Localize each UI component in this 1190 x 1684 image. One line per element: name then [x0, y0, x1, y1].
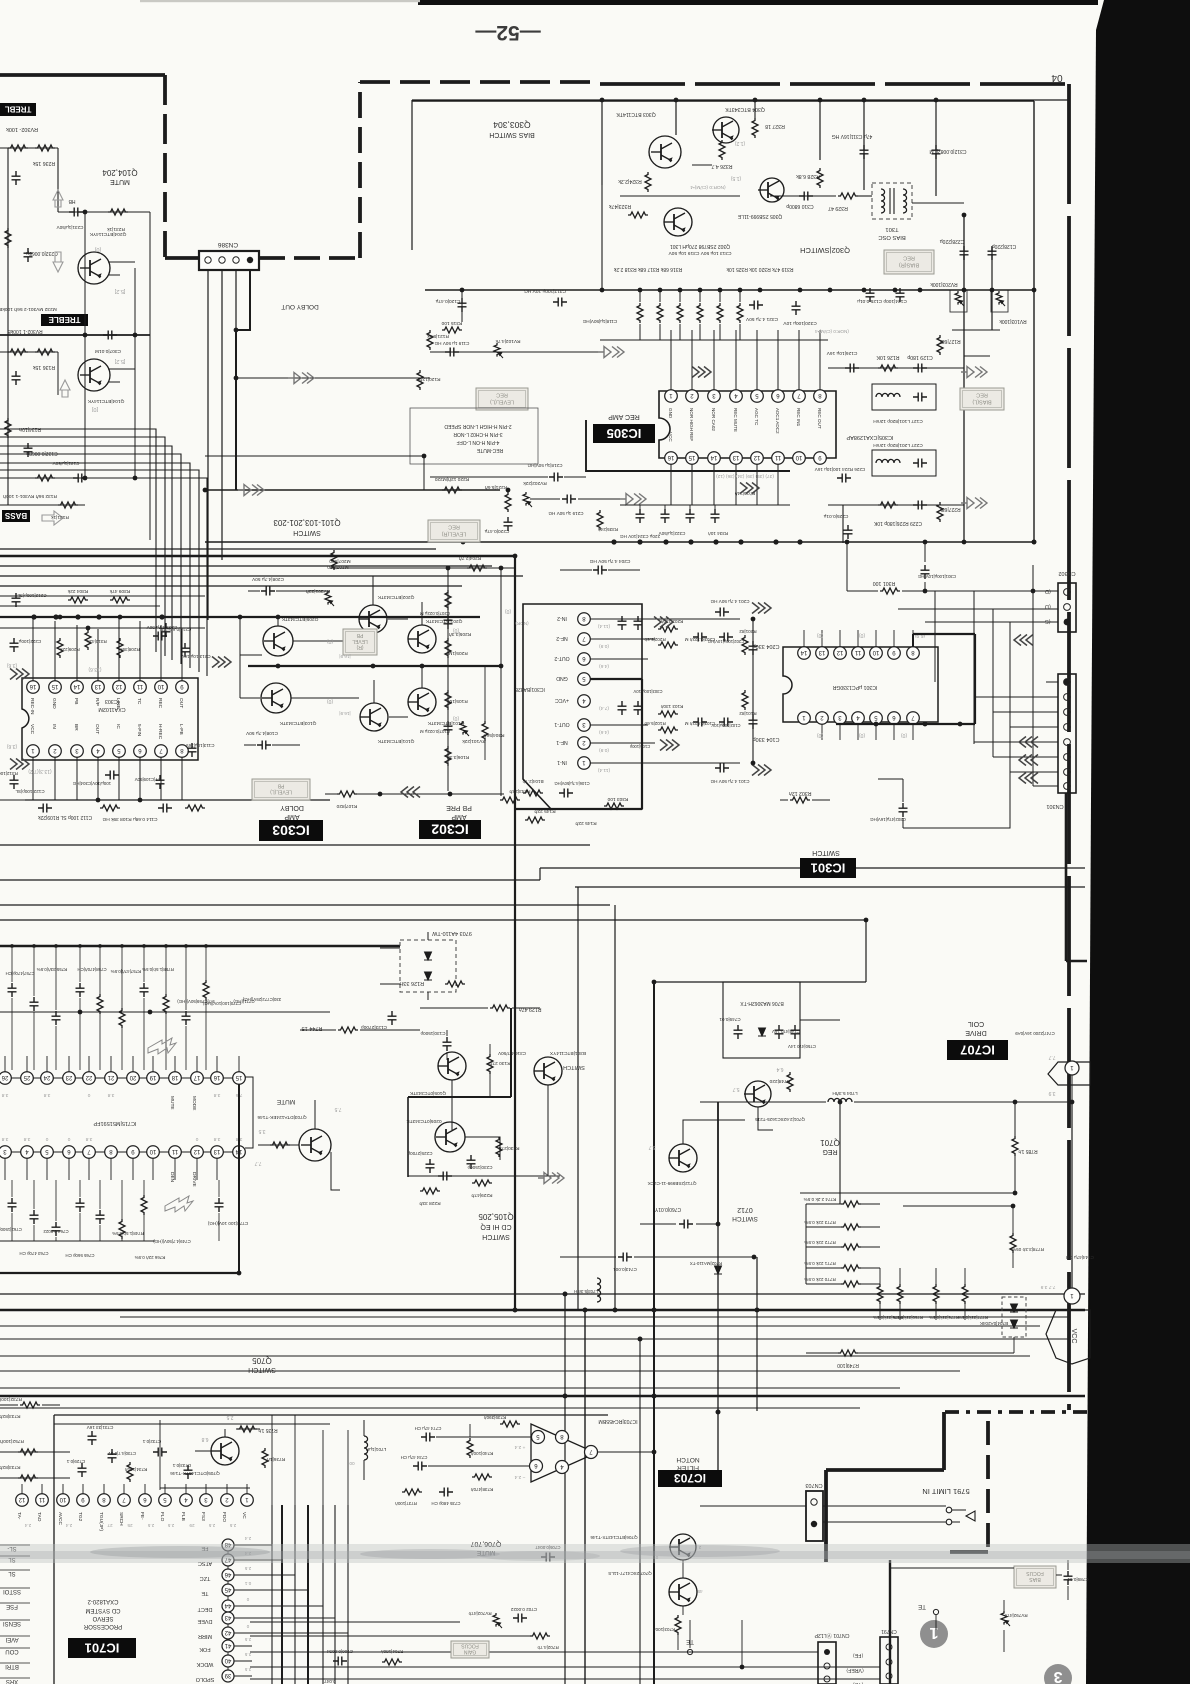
wire horizontal bus y880 — [0, 879, 540, 881]
wire ic302 r h1 — [590, 618, 740, 620]
svg-text:Q202|BTC343TK: Q202|BTC343TK — [377, 594, 415, 600]
svg-text:2.5: 2.5 — [229, 1523, 236, 1528]
wire ic302 r h5 — [590, 742, 655, 744]
svg-text:R134|10ℎ: R134|10ℎ — [19, 426, 41, 432]
wire IC715 row2 stub x153 — [152, 1158, 154, 1180]
IC IC305 outline — [659, 391, 836, 458]
svg-text:CN703: CN703 — [805, 1482, 822, 1488]
svg-text:FS3: FS3 — [200, 1512, 206, 1521]
wire left stub — [0, 799, 25, 801]
loop L201 C227 box — [872, 450, 936, 476]
resistor RV302a — [8, 145, 28, 151]
svg-text:C222|100µ: C222|100µ — [18, 639, 41, 644]
svg-text:C101 4.7µ 50V HG: C101 4.7µ 50V HG — [710, 779, 749, 784]
scan smear band artifact — [0, 1544, 1190, 1563]
svg-text:(37) (35) (39) (34) (36): (37) (35) (39) (34) (36) (12) — [716, 473, 774, 479]
node bus290 x895 — [893, 288, 898, 293]
svg-text:R126 10K: R126 10K — [876, 354, 900, 360]
svg-text:REC: REC — [448, 524, 460, 530]
svg-text:DOLBY OUT: DOLBY OUT — [281, 303, 318, 310]
IC703 pin 7 — [585, 1446, 598, 1459]
wire q706 q707 — [682, 1560, 684, 1578]
svg-text:R323|47k: R323|47k — [609, 203, 632, 209]
svg-text:Q105,205: Q105,205 — [478, 1212, 514, 1221]
node x866 y920 — [864, 918, 869, 923]
potentiometer RV202 — [523, 492, 532, 507]
svg-text:MIRR: MIRR — [198, 1633, 212, 1639]
capacitor C311 — [860, 145, 869, 159]
capacitor C120 — [458, 298, 467, 312]
wire IC303 bottom pin7 stub — [160, 757, 162, 800]
svg-text:Q303,304: Q303,304 — [493, 120, 531, 130]
svg-text:C789|0.01: C789|0.01 — [1067, 1577, 1089, 1582]
IC305 pin 1 — [665, 390, 678, 403]
IC701 pin 8 — [98, 1494, 111, 1507]
connector CN386 — [199, 251, 259, 270]
svg-text:(1.5): (1.5) — [731, 175, 742, 181]
wire mesh h727 — [1010, 726, 1058, 728]
resistor R776 — [933, 1284, 939, 1304]
svg-text:DEN: DEN — [169, 1172, 175, 1183]
svg-text:R103 130ℎ: R103 130ℎ — [660, 704, 683, 709]
IC701 pin 1 — [241, 1494, 254, 1507]
node bus290 x640 — [638, 288, 643, 293]
IC715 pin 14 — [233, 1146, 246, 1159]
IC303 pin 15 — [49, 681, 62, 694]
svg-text:39: 39 — [224, 1672, 231, 1678]
wire cn703 h — [700, 1506, 946, 1522]
svg-text:C744|47µ CH: C744|47µ CH — [1066, 1255, 1094, 1260]
svg-text:100µ/10V|C304|HG: 100µ/10V|C304|HG — [72, 781, 111, 786]
IC305 pin 5 — [751, 390, 764, 403]
wire pb h576 — [330, 575, 440, 577]
wire IC715 row2 stub x175 — [174, 1158, 176, 1180]
svg-text:IN-1: IN-1 — [557, 759, 567, 765]
connector VCC hex bottom — [1046, 1310, 1090, 1364]
svg-text:R131|1k: R131|1k — [51, 514, 69, 520]
svg-text:REC MUTE: REC MUTE — [733, 408, 738, 432]
svg-text:0: 0 — [246, 1597, 249, 1602]
wire IC701 pin stub x227 — [226, 1484, 228, 1494]
node bus290 x864 — [862, 288, 867, 293]
wire IC701 pin stub x165 — [164, 1484, 166, 1494]
capacitor C733 — [184, 1465, 193, 1479]
wire c301 v — [924, 542, 926, 591]
svg-text:Q701: Q701 — [820, 1138, 840, 1147]
capacitor C128 — [988, 246, 997, 260]
wire ladder stub 1 — [806, 1226, 880, 1228]
svg-text:04: 04 — [1051, 72, 1063, 83]
resistor R739 — [500, 1421, 520, 1427]
svg-text:21: 21 — [107, 1074, 114, 1080]
wire staircase 6 — [0, 470, 199, 672]
wire tape left col — [7, 148, 9, 505]
svg-text:(4.6): (4.6) — [599, 663, 609, 669]
svg-text:C213|10µ|16V: C213|10µ|16V — [180, 654, 210, 659]
svg-text:R304 22k: R304 22k — [67, 588, 88, 594]
svg-text:⟨D: ⟨D — [1045, 588, 1051, 595]
wire IC701 col link y1560 — [234, 1559, 282, 1561]
svg-text:BR: BR — [73, 724, 79, 731]
svg-text:LEVEL(R): LEVEL(R) — [441, 530, 466, 536]
arrow cluster cn301 c — [1019, 773, 1038, 784]
svg-text:LEVEL(L): LEVEL(L) — [270, 789, 292, 795]
wire left edge stub BTRI — [0, 1662, 30, 1664]
svg-text:(3.6): (3.6) — [7, 743, 18, 749]
wire IC301 pin stub up x822 — [821, 630, 823, 647]
wire IC303 top pin11 stub — [139, 621, 141, 681]
svg-text:⟨FE⟩: ⟨FE⟩ — [853, 1652, 864, 1658]
wire ladder stub 0 — [806, 1203, 880, 1205]
svg-text:R301 100: R301 100 — [873, 580, 896, 586]
wire staircase 4 — [0, 454, 181, 664]
wire rec row1 — [828, 367, 964, 369]
node x936 y100 — [934, 98, 939, 103]
wire IC305 pin16 stub down — [670, 464, 672, 505]
transistor Q202 — [408, 625, 436, 653]
svg-text:7.7 3.9: 7.7 3.9 — [1040, 1284, 1055, 1290]
svg-text:FOK: FOK — [199, 1646, 211, 1652]
wire horizontal bus y946 heavy — [0, 945, 400, 947]
wire abv715 x144 — [143, 948, 145, 1070]
svg-text:TREBLE: TREBLE — [48, 315, 81, 324]
svg-text:12: 12 — [836, 649, 843, 655]
IC715 pin 26 — [0, 1072, 11, 1085]
wire ic302 r h3 — [590, 658, 648, 660]
svg-text:R310|43k: R310|43k — [87, 639, 107, 644]
resistor R106 — [445, 746, 451, 766]
wire IC701 col stub 42 — [234, 1632, 252, 1634]
svg-text:Q303 BTC114TK: Q303 BTC114TK — [616, 111, 656, 117]
svg-text:R773 22k 0.5%: R773 22k 0.5% — [804, 1220, 835, 1225]
svg-text:14: 14 — [710, 454, 717, 460]
svg-text:R748|1.5ℎ|0.5%: R748|1.5ℎ|0.5% — [112, 1231, 144, 1236]
svg-text:SSTOI: SSTOI — [3, 1588, 21, 1594]
wire botleft h1 — [0, 1451, 70, 1453]
IC701 pin 43 DVEE — [222, 1612, 234, 1624]
svg-text:(0): (0) — [453, 627, 459, 633]
node pb y568 b — [499, 566, 504, 571]
arrow chevron pin9 — [740, 483, 759, 494]
IC301 pin 1 — [798, 712, 811, 725]
wire r785 v — [1014, 1102, 1016, 1193]
svg-text:C321 4.7µ 50V: C321 4.7µ 50V — [745, 316, 778, 322]
wire IC303 top pin9 stub — [181, 629, 183, 681]
svg-text:C307|0.01M: C307|0.01M — [95, 348, 121, 354]
wire CN301 bottom corner — [1066, 960, 1087, 963]
wire corner x866 — [865, 920, 867, 982]
capacitor C228 — [960, 246, 969, 260]
IC IC303 outline — [22, 678, 198, 760]
capacitor C225 — [844, 525, 853, 539]
potentiometer RV101 — [460, 721, 469, 736]
wire vertical x514 heavy — [514, 556, 516, 1310]
IC303 pin names top — [29, 698, 184, 715]
wire bus y1012 — [0, 1011, 330, 1013]
connector CN795 — [880, 1637, 898, 1684]
IC305 pin 14 — [708, 452, 721, 465]
wire q30x h2 — [692, 164, 712, 166]
svg-text:BIAS: BIAS — [1029, 1576, 1041, 1582]
wire L704 right — [854, 1101, 1072, 1103]
svg-text:Q105|0TC343TK: Q105|0TC343TK — [409, 1090, 446, 1096]
svg-text:C732|0.1: C732|0.1 — [142, 1439, 161, 1444]
wire v x602 mid — [601, 185, 603, 290]
svg-text:REC: REC — [157, 698, 163, 709]
capacitor C756 — [76, 983, 85, 997]
wire IC701 col link y1618 — [234, 1617, 335, 1619]
wire botleft box — [53, 1415, 55, 1684]
wire rv row — [952, 329, 1000, 331]
svg-text:(0): (0) — [817, 732, 823, 738]
wire abv715 x34 — [33, 948, 35, 1070]
wire pb h2 — [240, 654, 262, 656]
resistor R304b — [482, 721, 488, 741]
capacitor C209 — [153, 632, 167, 641]
resistor bias x680 — [677, 303, 683, 323]
IC302 pin 5 — [578, 673, 591, 686]
resistor R243 — [500, 797, 520, 803]
diode B704b — [1010, 1320, 1018, 1328]
svg-text:R101|82: R101|82 — [739, 711, 757, 716]
switch contact TE2 — [687, 1649, 692, 1654]
heavy border segment to CN386 — [165, 256, 199, 260]
capacitor C754 — [30, 997, 39, 1011]
resistor R766 — [141, 1195, 147, 1215]
svg-text:29: 29 — [189, 1523, 195, 1528]
svg-text:10: 10 — [157, 683, 164, 689]
svg-text:(0): (0) — [505, 608, 511, 614]
IC303 pin 11 — [134, 681, 147, 694]
svg-text:C760|0.01Y: C760|0.01Y — [654, 1206, 681, 1212]
IC701 pin 6 — [139, 1494, 152, 1507]
transistor Q305 — [758, 178, 784, 202]
svg-text:SWITCH: SWITCH — [248, 1366, 276, 1373]
wire IC715 row2 stub x133 — [132, 1158, 134, 1180]
capacitor C104 — [749, 715, 758, 729]
svg-text:TGU(JP): TGU(JP) — [98, 1512, 104, 1531]
wire IC305 pin13 stub down — [735, 464, 737, 505]
svg-text:VCC: VCC — [29, 724, 35, 735]
svg-text:25: 25 — [23, 1074, 30, 1080]
svg-text:R230|27ℎ: R230|27ℎ — [498, 1145, 519, 1151]
wire IC701 pin stub x206 — [205, 1484, 207, 1494]
svg-text:R702|MA110-TX: R702|MA110-TX — [690, 1261, 722, 1266]
block Q701 REG box — [723, 982, 800, 1058]
wire IC715 row2 stub x239 — [238, 1158, 240, 1180]
capacitor C214 — [162, 623, 171, 637]
wire q30x h1 — [620, 195, 740, 197]
wire CN386 pin3 down — [235, 270, 237, 490]
wire IC715 row1 stub x239 — [238, 1056, 240, 1072]
node rec bot a — [962, 540, 967, 545]
svg-text:TREBL: TREBL — [5, 105, 32, 114]
wire CN386 pin4 down heavy — [236, 270, 250, 490]
svg-text:45: 45 — [224, 1586, 231, 1592]
resistor R105 — [445, 690, 451, 710]
svg-text:2.5: 2.5 — [244, 1566, 251, 1571]
wire opamp h2 — [428, 1465, 529, 1467]
wire IC301 pin stub down x822 — [821, 724, 823, 740]
svg-text:PROCESSOR: PROCESSOR — [83, 1623, 122, 1629]
svg-text:Q201|BTC343TK: Q201|BTC343TK — [425, 618, 463, 624]
resistor R778 — [1010, 1233, 1016, 1253]
svg-text:R771 22k 0.5%: R771 22k 0.5% — [804, 1261, 835, 1266]
IC302 pin 6 — [578, 653, 591, 666]
svg-text:0.047: 0.047 — [324, 1679, 336, 1684]
svg-text:15: 15 — [51, 683, 58, 689]
wire left edge stub SENSI — [0, 1619, 30, 1621]
IC302 pin 1 — [578, 757, 591, 770]
wire pb row y568 — [330, 567, 515, 569]
wire q104 links — [108, 369, 135, 382]
diode D9703a — [424, 952, 432, 960]
wire stub res x700 low — [699, 324, 701, 340]
IC703 pin 8 — [556, 1431, 569, 1444]
resistor R201 — [742, 635, 748, 655]
IC701 pin 2 — [221, 1494, 234, 1507]
node rec row2 a — [203, 488, 208, 493]
svg-text:MODE: MODE — [191, 1096, 197, 1110]
svg-text:C128|220p: C128|220p — [992, 243, 1017, 249]
wire stub res x640 — [639, 290, 641, 302]
svg-text:R758|1.5ℎ|0.5%: R758|1.5ℎ|0.5% — [142, 967, 174, 972]
svg-text:Q104|BTC114YK: Q104|BTC114YK — [87, 398, 124, 404]
wire r778 v — [1012, 1206, 1014, 1268]
wire IC303 bottom pin5 stub — [118, 757, 120, 800]
capacitor C106 — [559, 789, 573, 798]
IC301 pin 6 — [888, 712, 901, 725]
wire IC715 row2 stub x5 — [4, 1158, 6, 1180]
resistor R327 — [752, 118, 758, 138]
wire blw715 x100 — [99, 1180, 101, 1241]
node x864 y100 — [862, 98, 867, 103]
jack plug symbol — [946, 1507, 975, 1525]
resistor R127 — [937, 335, 943, 355]
wire CN301 heavy down — [1065, 793, 1068, 961]
resistor bias x700 — [697, 303, 703, 323]
diode D9703b — [424, 972, 432, 980]
wire stub res x740 — [739, 290, 741, 302]
svg-text:C774 47µ CH: C774 47µ CH — [415, 1426, 442, 1431]
svg-text:3: 3 — [1053, 1668, 1062, 1684]
node dolby feed — [234, 376, 239, 381]
node pb y568 a — [446, 566, 451, 571]
node x820 y100 — [818, 98, 823, 103]
wire mesh h786 — [1033, 785, 1058, 787]
svg-text:C118|1µ|50V|HG: C118|1µ|50V|HG — [582, 319, 617, 324]
heavy border segment bottom — [826, 1468, 944, 1472]
svg-text:R702|4.7ℎ: R702|4.7ℎ — [537, 1645, 559, 1650]
resistor R758 — [163, 994, 169, 1014]
svg-text:C763 470p CH: C763 470p CH — [19, 1251, 48, 1256]
wire IC715 row2 stub x69 — [68, 1158, 70, 1180]
svg-text:CXA1102M: CXA1102M — [98, 706, 126, 712]
wire stub res x640 low — [639, 324, 641, 340]
svg-text:NOTCH: NOTCH — [676, 1456, 699, 1463]
wire bot v742 — [741, 1620, 743, 1667]
svg-text:7.5: 7.5 — [334, 1106, 341, 1112]
transistor Q101 — [408, 688, 436, 716]
wire cd v454 — [451, 1080, 453, 1130]
svg-text:40: 40 — [224, 1657, 231, 1663]
node r107 a — [378, 792, 383, 797]
wire pb q101 v — [421, 668, 423, 688]
wire IC701 pin stub x83 — [82, 1484, 84, 1494]
node ic703 out — [652, 1450, 657, 1455]
wire IC303 top pin14 stub — [76, 625, 78, 681]
capacitor C222 — [10, 638, 19, 652]
svg-text:XRS: XRS — [6, 1678, 18, 1684]
capacitor C755 — [52, 1011, 61, 1025]
svg-text:2.5: 2.5 — [244, 1637, 251, 1642]
resistor R733 — [18, 1475, 38, 1481]
svg-text:12: 12 — [115, 683, 122, 689]
capacitor C123 — [388, 1011, 397, 1025]
wire bus y290 heavy — [425, 289, 1034, 291]
potentiometer RV201b — [325, 591, 334, 606]
svg-text:C303|100µ|10V: C303|100µ|10V — [633, 689, 662, 694]
wire stub res x680 low — [679, 324, 681, 340]
wire abv715 x166 — [165, 948, 167, 1070]
loop L101 C127 box — [872, 384, 936, 410]
svg-text:NOR HIGH: NOR HIGH — [689, 408, 694, 431]
svg-text:C749|4.7|50V|(HG): C749|4.7|50V|(HG) — [153, 1239, 191, 1244]
IC701 col gray volts — [244, 1536, 251, 1672]
svg-text:22: 22 — [85, 1074, 92, 1080]
svg-text:REC: REC — [496, 392, 508, 398]
IC701 pin 9 — [77, 1494, 90, 1507]
node pb a — [276, 615, 281, 620]
svg-text:REC-MUTE: REC-MUTE — [476, 447, 503, 453]
IC715 pin 10 — [147, 1146, 160, 1159]
resistor RV302b — [8, 349, 28, 355]
svg-text:BIAS(L): BIAS(L) — [972, 398, 991, 404]
svg-text:(0): (0) — [901, 732, 907, 738]
resistor R129 — [490, 1005, 510, 1011]
svg-text:M207|820: M207|820 — [327, 564, 349, 570]
capacitor C213 — [181, 643, 190, 657]
wire botleft box top — [54, 1414, 608, 1416]
svg-text:SRCH: SRCH — [118, 1512, 124, 1526]
svg-text:R309 47k: R309 47k — [109, 588, 130, 594]
wire IC701 col link y1606 — [234, 1605, 323, 1607]
svg-text:C757|470p|CH: C757|470p|CH — [6, 971, 35, 976]
svg-text:+VCC: +VCC — [555, 697, 569, 703]
svg-text:C123|2700p: C123|2700p — [361, 1024, 387, 1030]
label box REC LEVEL(L) — [476, 388, 528, 410]
svg-text:24: 24 — [43, 1074, 50, 1080]
node pb b — [238, 615, 243, 620]
resistor R131 — [58, 502, 78, 508]
IC715 pin 12 — [191, 1146, 204, 1159]
svg-text:3.8: 3.8 — [23, 1136, 30, 1142]
IC703 pin 6 — [530, 1460, 543, 1473]
transistor Q204 — [78, 252, 110, 284]
node tape 478a — [83, 476, 88, 481]
wire horizontal bus y1396 heavy — [0, 1395, 1085, 1397]
IC303 pin 14 — [71, 681, 84, 694]
wire mesh h622 — [925, 621, 1058, 623]
wire t301 left — [858, 195, 872, 197]
svg-text:—52—: —52— — [475, 21, 540, 44]
svg-text:C201 4.7µ 50V HG: C201 4.7µ 50V HG — [710, 599, 749, 604]
svg-text:(0): (0) — [859, 732, 865, 738]
svg-text:26: 26 — [1, 1074, 8, 1080]
IC302 pin volts — [598, 623, 611, 773]
svg-text:DRIVE: DRIVE — [965, 1029, 987, 1036]
IC305 pin 4 — [730, 390, 743, 403]
